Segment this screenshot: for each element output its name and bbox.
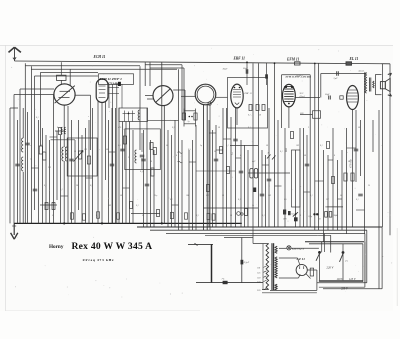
svg-text:50: 50 [259,115,261,117]
svg-text:a%: a% [345,261,348,263]
svg-text:2µ: 2µ [188,121,190,123]
svg-text:25: 25 [368,185,370,187]
svg-text:0,5: 0,5 [188,149,191,151]
svg-text:0,1: 0,1 [310,195,313,197]
svg-text:1M: 1M [296,145,299,147]
svg-text:EBF 11: EBF 11 [244,92,252,95]
svg-text:0,5µF: 0,5µF [244,262,250,264]
svg-text:0,1: 0,1 [66,147,69,149]
svg-text:0,1µ: 0,1µ [309,216,313,218]
svg-text:50pF: 50pF [325,94,330,96]
svg-text:0,5: 0,5 [284,199,287,201]
svg-text:2M: 2M [108,205,111,207]
svg-text:Horny: Horny [49,244,64,250]
svg-text:0,1: 0,1 [320,145,323,147]
svg-text:2M: 2M [268,195,271,197]
svg-text:0,1: 0,1 [60,189,63,191]
svg-text:25: 25 [20,149,22,151]
svg-text:110 V: 110 V [337,278,344,281]
svg-text:50pF: 50pF [243,68,248,70]
svg-text:0,2: 0,2 [90,185,93,187]
svg-text:0,2: 0,2 [172,127,175,129]
svg-text:50: 50 [319,219,321,221]
svg-text:0,1: 0,1 [36,117,39,119]
svg-text:30µF: 30µF [223,69,228,71]
svg-text:0,1: 0,1 [136,205,139,207]
svg-text:0,1: 0,1 [280,151,283,153]
svg-text:Rex 40 W W 345 A: Rex 40 W W 345 A [72,241,153,252]
svg-text:AZ 11: AZ 11 [296,257,306,261]
svg-text:0,1: 0,1 [238,199,241,201]
svg-text:0,1: 0,1 [248,127,251,129]
svg-text:0,1: 0,1 [262,215,265,217]
svg-text:2M: 2M [48,167,51,169]
svg-text:0,1: 0,1 [248,115,251,117]
svg-text:2: 2 [128,157,129,159]
svg-text:0,1: 0,1 [226,145,229,147]
svg-text:ECH 11: ECH 11 [93,55,106,59]
svg-text:4,5mA: 4,5mA [359,70,365,73]
svg-text:0,2: 0,2 [206,195,209,197]
svg-text:EL 11: EL 11 [349,57,359,61]
svg-text:0,1: 0,1 [292,214,295,216]
svg-text:2M: 2M [326,199,329,201]
svg-text:0,1: 0,1 [356,199,359,201]
svg-text:25: 25 [252,205,254,207]
svg-text:EFM 11: EFM 11 [286,57,299,61]
svg-text:0,15/7 0,2 A: 0,15/7 0,2 A [292,248,304,251]
svg-text:0,1: 0,1 [118,145,121,147]
svg-text:125 V: 125 V [349,278,356,281]
svg-text:0,5: 0,5 [44,185,47,187]
svg-text:ZFreq 473 kHz: ZFreq 473 kHz [83,258,115,262]
svg-text:5: 5 [52,215,53,217]
svg-text:0,3: 0,3 [196,215,199,217]
svg-text:0,1: 0,1 [170,199,173,201]
svg-text:1M: 1M [186,195,189,197]
svg-text:1M: 1M [84,149,87,151]
svg-text:220 V: 220 V [341,288,348,291]
svg-text:4,5mA: 4,5mA [297,74,304,77]
svg-text:EBF 11: EBF 11 [233,57,246,61]
svg-text:2µF: 2µF [334,77,339,80]
svg-text:2: 2 [308,127,309,129]
